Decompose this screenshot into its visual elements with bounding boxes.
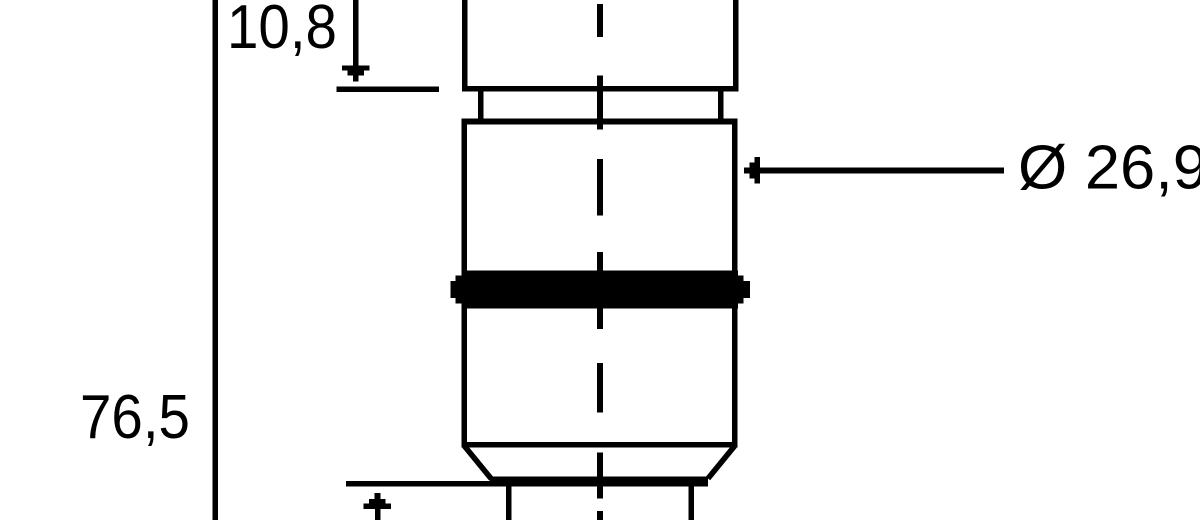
extension line bottom left bbox=[346, 481, 490, 487]
dimension line 76,5 (left vertical extent line) bbox=[213, 0, 219, 520]
svg-text:Ø 26,9: Ø 26,9 bbox=[1018, 133, 1200, 203]
neck left wall bbox=[478, 90, 484, 121]
body top line bbox=[462, 119, 738, 125]
body bottom line bbox=[462, 442, 738, 448]
diameter leader line bbox=[760, 168, 1004, 174]
chamfer right diagonal bbox=[708, 446, 735, 479]
dimension arrowhead bottom (up) bbox=[374, 493, 380, 499]
centerline dash 4 bbox=[597, 252, 603, 329]
dimension arrow shaft bottom bbox=[375, 509, 381, 520]
dimension arrowhead 10,8 (down) bbox=[342, 66, 370, 71]
dimension arrow 10,8 shaft (vertical, pointing down) bbox=[353, 0, 359, 66]
body right wall bbox=[732, 119, 738, 448]
chamfer left diagonal bbox=[464, 446, 491, 479]
cap shoulder line bbox=[462, 86, 739, 92]
extension line at shoulder (left of cap) bbox=[337, 87, 440, 93]
cap left wall bbox=[462, 0, 468, 92]
O-ring band right cap steps bbox=[738, 276, 744, 304]
centerline dash 5 bbox=[597, 363, 603, 413]
centerline dash 1 bbox=[597, 4, 603, 37]
centerline dash 6 bbox=[597, 453, 603, 499]
svg-text:10,8: 10,8 bbox=[227, 0, 337, 62]
bottom thick line (taper base) bbox=[490, 477, 708, 487]
neck right wall bbox=[718, 90, 724, 121]
O-ring band main bbox=[461, 271, 738, 309]
base left wall bbox=[506, 486, 512, 520]
cap right wall bbox=[733, 0, 739, 92]
centerline dash 2 bbox=[597, 76, 603, 130]
body left wall bbox=[462, 119, 468, 448]
svg-text:76,5: 76,5 bbox=[80, 382, 190, 452]
centerline dash 3 bbox=[597, 159, 603, 216]
O-ring band left cap steps bbox=[456, 276, 462, 304]
centerline dash 7 bbox=[597, 511, 603, 520]
diameter arrowhead (left-pointing) bbox=[744, 168, 749, 174]
base right wall bbox=[689, 486, 695, 520]
